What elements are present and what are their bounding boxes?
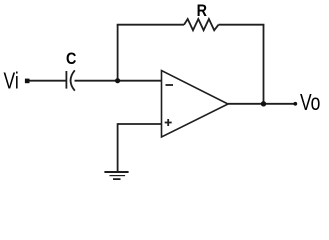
svg-text:R: R <box>197 2 207 20</box>
svg-text:C: C <box>66 50 76 68</box>
svg-text:Vo: Vo <box>300 91 320 116</box>
svg-text:Vi: Vi <box>4 69 19 94</box>
